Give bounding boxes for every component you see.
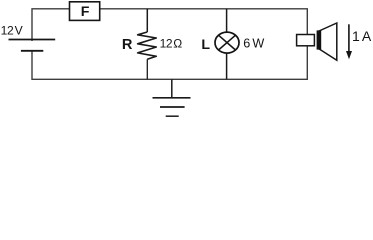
ground bar 2 xyxy=(160,106,185,108)
svg-text:R: R xyxy=(122,37,133,53)
wire bottom xyxy=(32,46,307,79)
ground stub wire xyxy=(171,79,173,98)
speaker driver rectangle xyxy=(297,35,315,46)
fuse F box xyxy=(70,2,100,21)
lamp X diagonal 2 xyxy=(219,35,236,50)
speaker cone xyxy=(319,23,337,60)
svg-text:1 A: 1 A xyxy=(352,28,372,44)
speaker coil bar xyxy=(317,30,322,49)
resistor R1 zigzag xyxy=(138,32,157,59)
wire top-left segment xyxy=(32,9,70,41)
svg-text:L: L xyxy=(201,37,210,53)
ground bar 3 xyxy=(166,115,179,117)
svg-text:12 V: 12 V xyxy=(1,24,24,38)
battery short plate (-) xyxy=(21,50,43,52)
wire top-right segment xyxy=(100,9,308,35)
lamp X diagonal 1 xyxy=(219,35,236,50)
ground bar 1 xyxy=(153,97,191,99)
svg-text:F: F xyxy=(81,4,90,20)
current arrow 1A xyxy=(348,24,350,53)
lamp L circle xyxy=(215,32,239,53)
svg-text:12 Ω: 12 Ω xyxy=(160,37,183,51)
svg-text:6 W: 6 W xyxy=(243,37,264,51)
lamp L bottom lead xyxy=(226,53,228,80)
battery long plate (+) xyxy=(9,39,56,41)
resistor R1 top lead xyxy=(146,9,148,32)
lamp L top lead xyxy=(226,9,228,33)
resistor R1 bottom lead xyxy=(146,59,148,79)
